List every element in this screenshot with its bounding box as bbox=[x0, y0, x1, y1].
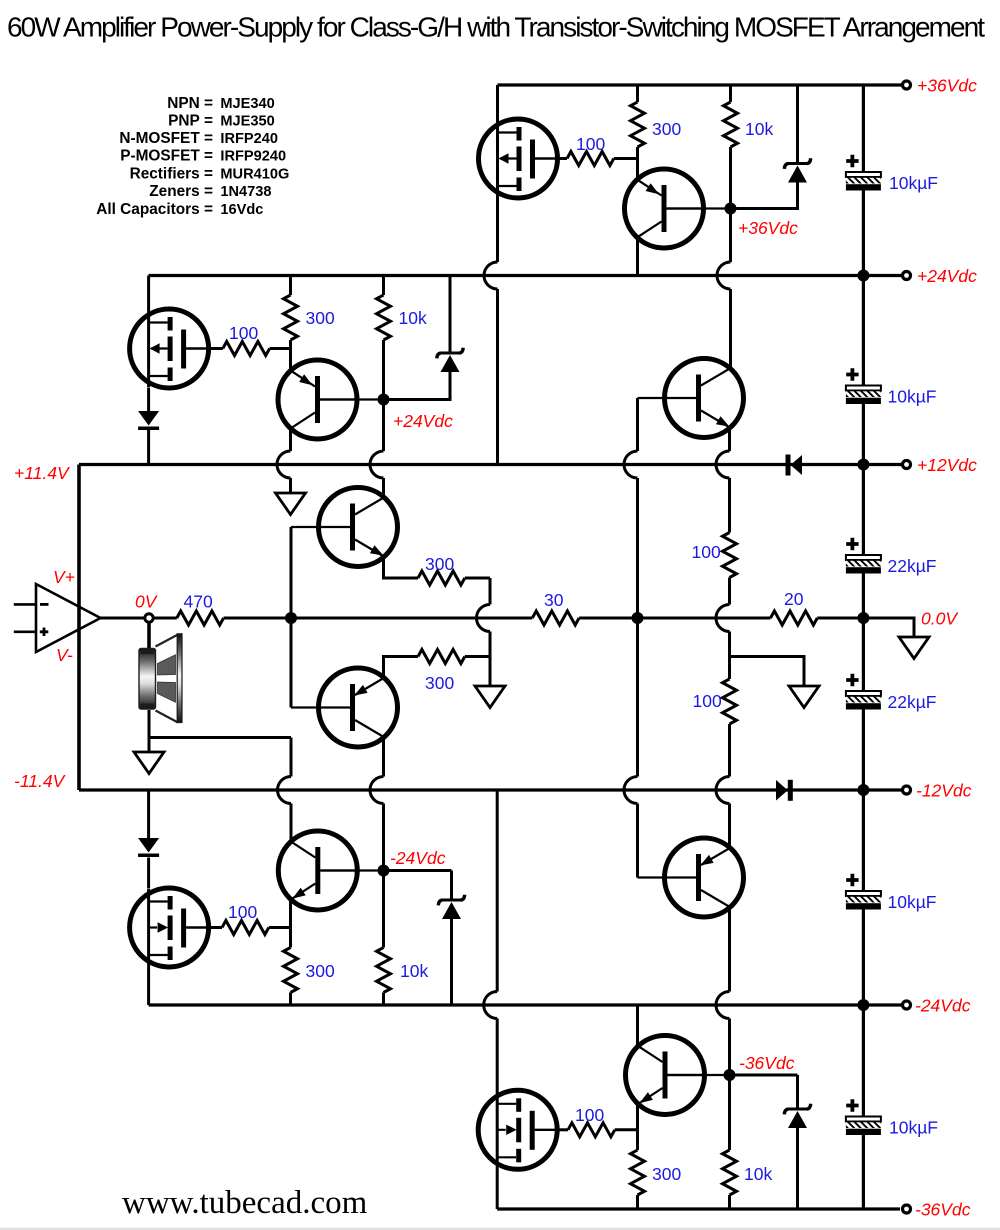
resistor 30 bbox=[532, 611, 579, 625]
svg-text:300: 300 bbox=[652, 1164, 681, 1184]
wire +12 rail terminal stub bbox=[863, 463, 902, 466]
svg-text:+11.4V: +11.4V bbox=[14, 463, 71, 483]
wire Q12 collector to -24 rail bbox=[636, 1005, 639, 1047]
wire Q5 base lead bbox=[638, 397, 698, 399]
wire Q8 base lead bbox=[638, 876, 698, 878]
junction dot 0V rail bbox=[857, 612, 869, 624]
wire -36 rail bbox=[497, 1207, 900, 1210]
transistor Q12 NPN MJE340 bbox=[626, 1036, 705, 1115]
N-MOSFET Q11 IRFP240 bbox=[478, 1090, 557, 1169]
wire Q7 base lead bbox=[291, 706, 351, 708]
resistor 100 (tier3 gate) bbox=[222, 921, 269, 935]
ground emitter resistors bbox=[475, 686, 505, 708]
wire tier2 bus down to Q6 collector bbox=[382, 400, 385, 498]
wire Q2 emitter to node bbox=[636, 159, 639, 181]
svg-text:www.tubecad.com: www.tubecad.com bbox=[122, 1185, 368, 1221]
resistor 300 (tier1) bbox=[636, 85, 639, 102]
wire gate res to node bbox=[269, 926, 291, 929]
terminal +12Vdc bbox=[903, 461, 911, 469]
svg-text:100: 100 bbox=[693, 691, 722, 711]
junction dot -12 rail bbox=[857, 784, 869, 796]
op-amp U1 bbox=[36, 584, 101, 652]
svg-text:-36Vdc: -36Vdc bbox=[915, 1200, 971, 1220]
wire Q11 gate lead bbox=[557, 1128, 569, 1131]
svg-text:-24Vdc: -24Vdc bbox=[915, 996, 971, 1016]
ground below Q4 bbox=[276, 493, 306, 515]
svg-text:-12Vdc: -12Vdc bbox=[916, 781, 972, 801]
resistor 100 (upper mid) bbox=[723, 533, 737, 578]
svg-text:16Vdc: 16Vdc bbox=[220, 202, 263, 218]
zener Z3 1N4738 bbox=[384, 871, 452, 899]
resistor 100 (tier1 gate) bbox=[567, 152, 614, 166]
wire Q10 emitter to node bbox=[289, 900, 292, 928]
capacitor C3 22kuF bbox=[846, 538, 881, 574]
svg-text:10kµF: 10kµF bbox=[889, 173, 938, 193]
svg-text:300: 300 bbox=[425, 554, 454, 574]
resistor 100 (tier4 gate) bbox=[568, 1123, 615, 1137]
diode D-12 bbox=[776, 780, 788, 801]
hop x730 over +24 rail bbox=[717, 262, 731, 289]
svg-text:300: 300 bbox=[306, 961, 335, 981]
hop x383 over +12 rail bbox=[370, 451, 384, 478]
hop x490 over center line bbox=[477, 605, 491, 632]
junction dot tier4 base node bbox=[724, 1069, 736, 1081]
svg-text:0V: 0V bbox=[135, 592, 159, 612]
P-MOSFET Q3 IRFP9240 bbox=[130, 309, 209, 388]
capacitor C4 22kuF bbox=[846, 674, 881, 710]
capacitor C6 10kuF bbox=[846, 1099, 881, 1135]
svg-text:300: 300 bbox=[425, 673, 454, 693]
diode D3 MUR410G bbox=[138, 838, 159, 857]
wire speaker feed bbox=[147, 622, 151, 650]
wire Q12 base to junction bbox=[668, 1074, 730, 1076]
wire Q12 emitter to node bbox=[636, 1105, 639, 1130]
wire gate res to node bbox=[615, 1128, 638, 1131]
hop x730 over -12 rail bbox=[716, 777, 730, 804]
hop x730 over +12 rail bbox=[716, 451, 730, 478]
resistor 300 (upper emitter) bbox=[418, 571, 465, 585]
svg-text:-11.4V: -11.4V bbox=[14, 771, 67, 791]
junction dot 470/driver bases bbox=[285, 612, 297, 624]
wire res down to Q8 emitter bbox=[728, 724, 731, 848]
wire +12 rail bbox=[79, 463, 863, 466]
capacitor C2 10kuF bbox=[846, 368, 881, 404]
P-MOSFET Q1 IRFP9240 bbox=[479, 119, 558, 198]
transistor Q5 NPN MJE340 bbox=[665, 359, 744, 438]
wire Q1 gate lead bbox=[557, 157, 567, 160]
wire D3 to -12 rail bbox=[147, 790, 150, 838]
svg-text:100: 100 bbox=[576, 134, 605, 154]
wire res to hop to common node bbox=[728, 578, 731, 680]
zener Z1 1N4738 bbox=[796, 85, 799, 162]
wire -24 rail bbox=[149, 1003, 902, 1006]
wire Q4 base to junction bbox=[320, 398, 384, 400]
svg-text:22kµF: 22kµF bbox=[888, 556, 937, 576]
left supply bus through op-amp bbox=[77, 465, 81, 791]
junction dot tier3 base node bbox=[378, 865, 390, 877]
ground mid right bbox=[789, 686, 819, 708]
resistor 20 bbox=[771, 611, 818, 625]
hop x497 over -24 rail bbox=[484, 992, 498, 1019]
speaker SPK1 bbox=[139, 634, 182, 723]
wire +24 rail bbox=[149, 274, 902, 277]
resistor 10k (tier3) bbox=[382, 871, 385, 948]
N-MOSFET Q9 IRFP240 bbox=[130, 888, 209, 967]
wire Q5 emitter down bbox=[728, 427, 731, 532]
svg-text:-36Vdc: -36Vdc bbox=[739, 1053, 795, 1073]
zener Z2 1N4738 bbox=[449, 276, 452, 352]
wire Q11 column x=497.2 bbox=[496, 790, 499, 1209]
terminal -24Vdc bbox=[903, 1001, 911, 1009]
svg-text:470: 470 bbox=[184, 592, 213, 612]
resistor 300 (lower emitter) bbox=[418, 650, 465, 664]
wire Q4 emitter to node bbox=[289, 349, 292, 372]
op-amp minus sign bbox=[40, 603, 49, 606]
op-amp input leads bbox=[14, 604, 36, 631]
svg-text:N-MOSFET =: N-MOSFET = bbox=[119, 130, 213, 147]
wire Q8 collector down to tier4 junction bbox=[728, 907, 731, 1075]
svg-text:+36Vdc: +36Vdc bbox=[738, 218, 798, 238]
wire main right rail (segments between capacitors) bbox=[862, 85, 865, 1209]
svg-text:0.0V: 0.0V bbox=[921, 609, 959, 629]
op-amp plus sign bbox=[40, 628, 49, 637]
svg-text:+12Vdc: +12Vdc bbox=[917, 455, 977, 475]
wire gate res to node bbox=[270, 347, 291, 350]
wire Q7 collector down to tier3 junction bbox=[382, 737, 385, 871]
svg-text:10k: 10k bbox=[400, 961, 428, 981]
transistor Q6 NPN MJE340 (driver upper) bbox=[319, 488, 398, 567]
svg-text:20: 20 bbox=[784, 589, 804, 609]
diode D+12 bbox=[786, 455, 791, 476]
junction dot +24 rail bbox=[857, 270, 869, 282]
transistor Q7 PNP MJE350 (driver lower) bbox=[319, 668, 398, 747]
wire Q3 gate lead bbox=[209, 347, 223, 350]
hop x730 over center line bbox=[716, 605, 730, 632]
svg-text:P-MOSFET =: P-MOSFET = bbox=[120, 148, 213, 165]
parts list bbox=[96, 95, 289, 218]
bottom page edge strip bbox=[0, 1228, 1000, 1230]
svg-text:IRFP9240: IRFP9240 bbox=[220, 149, 286, 165]
wire gate res to node bbox=[614, 157, 638, 160]
hop x637 over +12 rail bbox=[624, 451, 638, 478]
wire Q4 collector down to ground bbox=[289, 428, 292, 493]
svg-text:+24Vdc: +24Vdc bbox=[393, 411, 453, 431]
resistor 300 (tier3) bbox=[289, 928, 292, 948]
resistor 10k (tier2) bbox=[382, 276, 385, 296]
junction dot -24 rail bbox=[857, 999, 869, 1011]
wire lower emitter res to common bbox=[465, 655, 490, 658]
junction dot tier1 base node bbox=[725, 203, 737, 215]
svg-text:10kµF: 10kµF bbox=[888, 892, 937, 912]
zener Z4 1N4738 bbox=[730, 1075, 798, 1108]
resistor 100 (tier2 gate) bbox=[223, 342, 270, 356]
transistor Q2 PNP MJE350 bbox=[625, 169, 704, 248]
wire Q5 base bus x637 bbox=[636, 398, 639, 878]
terminal +36Vdc bbox=[903, 81, 911, 89]
svg-text:MJE350: MJE350 bbox=[220, 113, 274, 129]
wire Q6 emitter down/right bbox=[384, 556, 419, 578]
svg-text:PNP =: PNP = bbox=[168, 112, 213, 129]
wire +36 rail bbox=[498, 83, 903, 86]
svg-text:100: 100 bbox=[228, 902, 257, 922]
node 0V (output) bbox=[145, 614, 153, 622]
wire emitter res to common bbox=[465, 578, 490, 686]
resistor 300 (tier2) bbox=[289, 276, 292, 296]
ground below speaker bbox=[134, 752, 164, 774]
wire Q2 collector to +24 rail bbox=[636, 237, 639, 276]
svg-text:10k: 10k bbox=[745, 119, 773, 139]
wire Q10 base to junction bbox=[320, 869, 383, 871]
svg-text:NPN =: NPN = bbox=[167, 95, 213, 112]
junction dot tier2 base node bbox=[378, 394, 390, 406]
wire common node to ground bbox=[730, 657, 805, 687]
wire driver base bus x291 bbox=[290, 527, 293, 708]
svg-text:Zeners =: Zeners = bbox=[149, 183, 213, 200]
transistor Q10 NPN MJE340 bbox=[278, 831, 357, 910]
svg-text:30: 30 bbox=[544, 590, 564, 610]
wire tier1 bus down to Q5 collector bbox=[729, 209, 732, 369]
svg-text:10k: 10k bbox=[399, 308, 427, 328]
wire Q2 base to junction bbox=[667, 207, 731, 209]
svg-text:MUR410G: MUR410G bbox=[220, 167, 289, 183]
svg-text:1N4738: 1N4738 bbox=[220, 184, 271, 200]
hop x383 over -12 rail bbox=[370, 777, 384, 804]
svg-text:60W Amplifier Power-Supply for: 60W Amplifier Power-Supply for Class-G/H… bbox=[7, 12, 985, 43]
svg-text:Rectifiers =: Rectifiers = bbox=[130, 166, 213, 183]
hop x730 over -24 rail bbox=[716, 992, 730, 1019]
terminal -36Vdc bbox=[903, 1205, 911, 1213]
svg-text:100: 100 bbox=[575, 1105, 604, 1125]
svg-text:100: 100 bbox=[692, 542, 721, 562]
ground at 0.0V bbox=[899, 637, 929, 659]
resistor 10k (tier4) bbox=[728, 1075, 731, 1150]
terminal -12Vdc bbox=[903, 786, 911, 794]
wire Q7 emitter up/right bbox=[384, 657, 419, 679]
hop x497 over +24 rail bbox=[484, 262, 498, 289]
svg-text:MJE340: MJE340 bbox=[220, 96, 274, 112]
svg-text:-24Vdc: -24Vdc bbox=[390, 848, 446, 868]
wire speaker branch to tier3 bbox=[149, 738, 291, 843]
svg-text:All Capacitors =: All Capacitors = bbox=[96, 201, 213, 218]
wire speaker to ground bbox=[148, 710, 151, 752]
capacitor C5 10kuF bbox=[846, 874, 881, 910]
wire Q9 gate lead bbox=[210, 926, 223, 929]
wire -12 rail bbox=[79, 788, 902, 791]
resistor 300 (tier4) bbox=[636, 1130, 639, 1150]
resistor 470 bbox=[177, 611, 224, 625]
hop x637 over -12 rail bbox=[624, 777, 638, 804]
terminal +24Vdc bbox=[903, 272, 911, 280]
hop x290 over +12 rail bbox=[277, 451, 291, 478]
svg-text:22kµF: 22kµF bbox=[888, 692, 937, 712]
svg-text:+36Vdc: +36Vdc bbox=[917, 76, 977, 96]
junction dot +12 rail bbox=[857, 459, 869, 471]
transistor Q8 PNP MJE350 bbox=[665, 838, 744, 917]
svg-text:IRFP240: IRFP240 bbox=[220, 131, 278, 147]
svg-text:300: 300 bbox=[306, 308, 335, 328]
wire Q6 base lead bbox=[291, 526, 351, 528]
hop x291 over -12 rail bbox=[278, 777, 292, 804]
wire Q1 drain-source column x=497.5 bbox=[496, 85, 499, 465]
svg-text:10kµF: 10kµF bbox=[889, 1118, 938, 1138]
svg-text:V+: V+ bbox=[53, 567, 75, 587]
svg-text:10kµF: 10kµF bbox=[888, 387, 937, 407]
wire Q9 column x=148.6 bbox=[147, 858, 150, 1006]
svg-text:V-: V- bbox=[56, 645, 73, 665]
resistor 100 (lower mid) bbox=[723, 679, 737, 724]
transistor Q4 PNP MJE350 bbox=[278, 360, 357, 439]
svg-text:100: 100 bbox=[229, 323, 258, 343]
wire D2 to +12 rail bbox=[147, 430, 150, 465]
wire 0.0V ground stub bbox=[863, 618, 914, 637]
wire center 0V line bbox=[101, 617, 864, 620]
capacitor C1 10kuF bbox=[846, 155, 881, 191]
resistor 10k (tier1) bbox=[729, 85, 732, 102]
wire Q3 column x=148.6 bbox=[147, 276, 150, 412]
diode D2 MUR410G bbox=[138, 411, 159, 430]
junction dot center x637 bbox=[632, 612, 644, 624]
svg-text:300: 300 bbox=[652, 119, 681, 139]
svg-text:+24Vdc: +24Vdc bbox=[917, 266, 977, 286]
svg-text:10k: 10k bbox=[744, 1164, 772, 1184]
